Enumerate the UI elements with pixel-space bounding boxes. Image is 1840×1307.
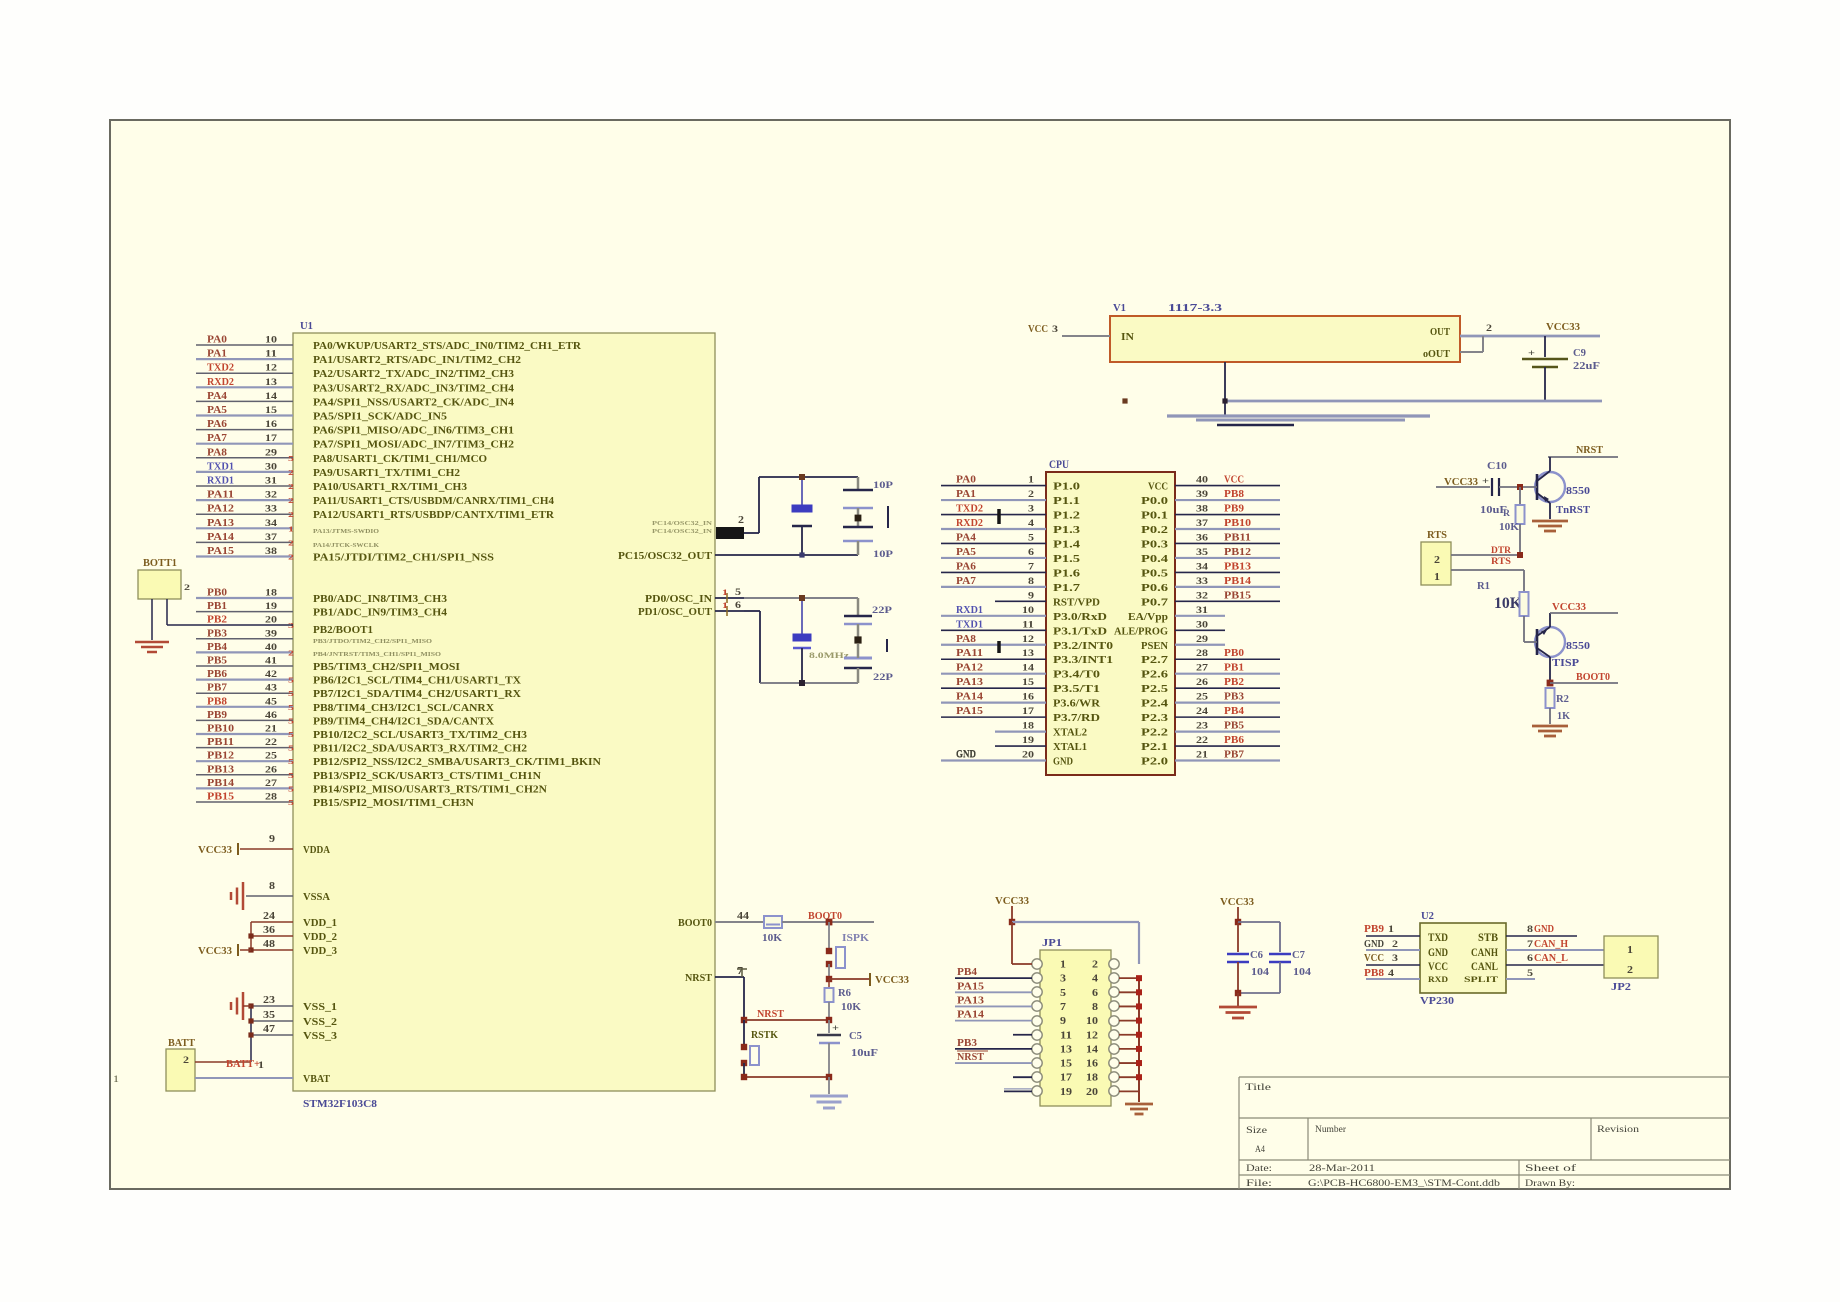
U1 pin 26 wire / net PB13: [196, 764, 542, 782]
svg-text:RXD: RXD: [1428, 974, 1448, 984]
svg-text:DTR: DTR: [1491, 546, 1511, 556]
U1 pin 13 wire / net RXD2: [196, 377, 514, 395]
svg-text:PB6: PB6: [1224, 735, 1244, 746]
svg-text:18: 18: [1086, 1073, 1098, 1084]
svg-text:Revision: Revision: [1597, 1125, 1639, 1135]
wire RTS pin1: [1451, 570, 1524, 592]
svg-text:+: +: [832, 1023, 839, 1033]
svg-text:BOOT0: BOOT0: [1576, 672, 1610, 683]
svg-text:11: 11: [1060, 1030, 1072, 1041]
svg-text:PA6: PA6: [207, 419, 227, 430]
svg-text:VCC33: VCC33: [1220, 897, 1254, 908]
svg-text:10P: 10P: [873, 481, 893, 491]
svg-text:PA4: PA4: [956, 532, 976, 543]
svg-text:34: 34: [1196, 562, 1208, 572]
U1 pin 3 PC15/OSC32_OUT: [618, 551, 744, 562]
CPU pin 11 (P3.1/TxD): [941, 619, 1107, 637]
svg-text:VDD_1: VDD_1: [303, 918, 337, 929]
CPU pin 29 (PSEN): [1141, 635, 1225, 652]
svg-text:4: 4: [1092, 974, 1098, 985]
svg-text:VP230: VP230: [1420, 995, 1455, 1007]
svg-text:104: 104: [1293, 967, 1311, 978]
svg-text:PB3: PB3: [957, 1038, 977, 1049]
svg-text:33: 33: [265, 505, 277, 515]
svg-text:PA5/SPI1_SCK/ADC_IN5: PA5/SPI1_SCK/ADC_IN5: [313, 412, 447, 423]
JP1 left wire row 3: [955, 981, 1032, 992]
svg-text:5: 5: [288, 454, 294, 463]
svg-text:2: 2: [288, 538, 294, 547]
svg-text:XTAL2: XTAL2: [1053, 728, 1087, 739]
net VCC33 (JP1 feed): [995, 896, 1139, 964]
svg-text:2: 2: [1392, 940, 1398, 950]
U1 pin 5 PD0/OSC_IN: [645, 587, 744, 605]
U1 pin 42 wire / net PB6: [196, 669, 522, 687]
U1 pin 40 wire / net PB4: [196, 642, 294, 658]
svg-text:22: 22: [1196, 736, 1208, 746]
svg-text:3: 3: [1060, 974, 1066, 985]
CPU pin 31 (EA/Vpp): [1128, 606, 1225, 623]
svg-text:VCC: VCC: [1148, 482, 1168, 493]
capacitor C10 10uF: [1436, 461, 1520, 516]
svg-text:4: 4: [1388, 969, 1394, 979]
JP1 pins 7/8: [1032, 1001, 1119, 1013]
wire VBAT pin 1: [195, 1074, 330, 1085]
CPU pin 38 (P0.1): [1141, 504, 1280, 522]
svg-text:45: 45: [265, 697, 277, 707]
svg-text:NRST: NRST: [757, 1009, 784, 1020]
CPU pin 39 (P0.0): [1141, 489, 1280, 507]
svg-text:18: 18: [1022, 722, 1034, 732]
svg-text:25: 25: [265, 752, 277, 762]
CPU pin 18 (XTAL2): [995, 722, 1087, 739]
svg-text:PA1/USART2_RTS/ADC_IN1/TIM2_CH: PA1/USART2_RTS/ADC_IN1/TIM2_CH2: [313, 355, 521, 366]
svg-text:GND: GND: [1428, 945, 1448, 959]
svg-text:P1.7: P1.7: [1053, 583, 1080, 594]
CPU pin 40 (VCC): [1148, 475, 1280, 493]
svg-text:VSS_1: VSS_1: [303, 1002, 337, 1013]
svg-text:VDDA: VDDA: [303, 845, 331, 856]
svg-text:30: 30: [265, 462, 277, 472]
svg-text:Drawn By:: Drawn By:: [1525, 1179, 1575, 1189]
svg-text:PA11/USART1_CTS/USBDM/CANRX/TI: PA11/USART1_CTS/USBDM/CANRX/TIM1_CH4: [313, 496, 554, 507]
capacitor C9 22uF: [1522, 336, 1600, 401]
svg-text:+: +: [1482, 476, 1489, 486]
svg-text:VCC33: VCC33: [198, 946, 232, 957]
CPU pin 36 (P0.3): [1141, 532, 1280, 550]
svg-text:P1.0: P1.0: [1053, 482, 1080, 493]
svg-text:P2.4: P2.4: [1141, 699, 1168, 710]
svg-text:CAN_L: CAN_L: [1534, 953, 1568, 964]
CPU pin 24 (P2.3): [1141, 706, 1280, 724]
svg-text:P3.4/T0: P3.4/T0: [1053, 670, 1100, 681]
svg-text:PB15/SPI2_MOSI/TIM1_CH3N: PB15/SPI2_MOSI/TIM1_CH3N: [313, 798, 475, 809]
svg-text:30: 30: [1196, 620, 1208, 630]
svg-text:TXD2: TXD2: [956, 504, 983, 515]
svg-text:15: 15: [1060, 1059, 1072, 1070]
svg-text:19: 19: [265, 602, 277, 612]
svg-text:TISP: TISP: [1552, 657, 1579, 669]
svg-text:CANL: CANL: [1471, 959, 1498, 973]
svg-text:14: 14: [1086, 1044, 1098, 1055]
svg-text:P2.7: P2.7: [1141, 655, 1168, 666]
svg-text:44: 44: [737, 911, 749, 922]
svg-text:PB6/I2C1_SCL/TIM4_CH1/USART1_T: PB6/I2C1_SCL/TIM4_CH1/USART1_TX: [313, 676, 522, 687]
JP1 left wire row 8: [955, 1051, 1032, 1063]
svg-text:Title: Title: [1245, 1083, 1271, 1093]
CPU pin 4 (P1.3): [941, 518, 1080, 536]
svg-text:CAN_H: CAN_H: [1534, 939, 1568, 950]
svg-text:PB5: PB5: [207, 656, 227, 667]
ground (Q1 emitter): [1532, 520, 1568, 523]
svg-text:PB1: PB1: [1224, 663, 1244, 674]
CPU pin 32 (P0.7): [1141, 590, 1280, 608]
svg-text:CPU: CPU: [1049, 459, 1070, 471]
svg-text:6: 6: [735, 600, 742, 610]
wire BATT+ net: [195, 1059, 265, 1070]
svg-text:38: 38: [1196, 505, 1208, 515]
svg-text:5: 5: [288, 744, 294, 753]
crystal Y1 8MHz circuit: [744, 595, 893, 686]
svg-text:5: 5: [288, 730, 294, 739]
svg-text:P2.3: P2.3: [1141, 713, 1168, 724]
svg-text:PA12/USART1_RTS/USBDP/CANTX/TI: PA12/USART1_RTS/USBDP/CANTX/TIM1_ETR: [313, 510, 555, 521]
svg-text:GND: GND: [1364, 939, 1384, 950]
U1 pin 43 wire / net PB7: [196, 683, 522, 701]
svg-text:File:: File:: [1246, 1179, 1272, 1189]
svg-text:P3.7/RD: P3.7/RD: [1053, 713, 1100, 724]
svg-text:P0.0: P0.0: [1141, 496, 1168, 507]
svg-text:22P: 22P: [872, 606, 892, 616]
svg-text:11: 11: [265, 350, 277, 360]
svg-text:NRST: NRST: [1576, 444, 1604, 456]
svg-text:5: 5: [1028, 533, 1034, 543]
svg-text:VSS_2: VSS_2: [303, 1017, 337, 1028]
svg-text:5: 5: [735, 587, 742, 597]
svg-text:22: 22: [265, 738, 277, 748]
svg-text:PB15: PB15: [207, 792, 234, 803]
svg-text:P1.5: P1.5: [1053, 554, 1080, 565]
svg-text:16: 16: [265, 420, 277, 430]
svg-text:PA9/USART1_TX/TIM1_CH2: PA9/USART1_TX/TIM1_CH2: [313, 468, 460, 479]
CPU pin 26 (P2.5): [1141, 677, 1280, 695]
schematic sheet: [110, 120, 1730, 1189]
svg-text:PD0/OSC_IN: PD0/OSC_IN: [645, 594, 713, 605]
U2 pin 6 CANL / net CAN_L: [1506, 953, 1604, 965]
title block: [1239, 1077, 1730, 1189]
svg-text:37: 37: [265, 533, 277, 543]
svg-text:GND: GND: [1053, 757, 1073, 768]
svg-text:PB6: PB6: [207, 669, 227, 680]
svg-text:P2.2: P2.2: [1141, 728, 1168, 739]
svg-text:SPLIT: SPLIT: [1464, 974, 1498, 984]
resistor R5 10K (BOOT0): [762, 916, 782, 944]
svg-text:PA10/USART1_RX/TIM1_CH3: PA10/USART1_RX/TIM1_CH3: [313, 482, 467, 493]
svg-text:PA12: PA12: [956, 663, 983, 674]
svg-text:U2: U2: [1421, 911, 1434, 922]
svg-text:PA0/WKUP/USART2_STS/ADC_IN0/TI: PA0/WKUP/USART2_STS/ADC_IN0/TIM2_CH1_ETR: [313, 341, 582, 352]
svg-text:PB2: PB2: [1224, 677, 1244, 688]
U1 pin 44 BOOT0: [678, 911, 764, 929]
wire to VCC33 (BOOT0 divider): [826, 973, 909, 986]
svg-text:PA14: PA14: [207, 532, 234, 543]
svg-text:PA11: PA11: [207, 490, 234, 501]
svg-text:JP2: JP2: [1611, 982, 1631, 993]
U1 pin 18 wire / net PB0: [196, 588, 447, 606]
CPU pin 17 (P3.7/RD): [941, 706, 1100, 724]
svg-text:Number: Number: [1315, 1125, 1347, 1135]
svg-text:P0.2: P0.2: [1141, 525, 1168, 536]
U1 pin 10 wire / net PA0: [196, 335, 582, 353]
JP1 left wire row 6: [1013, 1034, 1032, 1036]
svg-text:15: 15: [1022, 678, 1034, 688]
svg-text:P1.6: P1.6: [1053, 568, 1080, 579]
svg-text:2: 2: [183, 1055, 190, 1065]
U1 pin 30 wire / net TXD1: [196, 461, 460, 479]
CPU pin 23 (P2.2): [1141, 721, 1280, 739]
svg-text:PB14: PB14: [1224, 576, 1251, 587]
svg-text:PB15: PB15: [1224, 590, 1251, 601]
U1 pin 20 wire / net PB2: [207, 615, 373, 637]
CPU pin 3 (P1.2): [941, 504, 1080, 522]
svg-text:29: 29: [1196, 635, 1208, 645]
svg-text:P3.5/T1: P3.5/T1: [1053, 684, 1100, 695]
capacitor C6 104: [1227, 922, 1269, 993]
svg-text:PA0: PA0: [207, 335, 227, 346]
svg-text:RTS: RTS: [1491, 557, 1511, 567]
CPU pin 34 (P0.5): [1141, 561, 1280, 579]
U1 pin 6 PD1/OSC_OUT: [638, 600, 744, 618]
CPU pin 37 (P0.2): [1141, 518, 1280, 536]
svg-text:28-Mar-2011: 28-Mar-2011: [1309, 1164, 1375, 1174]
U1 pin 22 wire / net PB11: [196, 737, 527, 755]
JP1 pins 1/2: [1032, 959, 1119, 971]
wire NRST net: [741, 977, 832, 1023]
svg-text:19: 19: [1022, 736, 1034, 746]
svg-text:PB3/JTDO/TIM2_CH2/SPI1_MISO: PB3/JTDO/TIM2_CH2/SPI1_MISO: [313, 638, 432, 645]
svg-text:PB10: PB10: [207, 724, 234, 735]
CPU pin 8 (P1.7): [941, 576, 1080, 594]
svg-text:PA5: PA5: [207, 405, 227, 416]
svg-text:35: 35: [1196, 548, 1208, 558]
svg-text:22P: 22P: [873, 673, 893, 683]
CPU pin 15 (P3.5/T1): [941, 677, 1100, 695]
svg-text:2: 2: [1028, 490, 1034, 500]
svg-text:43: 43: [265, 684, 277, 694]
svg-text:PA7/SPI1_MOSI/ADC_IN7/TIM3_CH2: PA7/SPI1_MOSI/ADC_IN7/TIM3_CH2: [313, 440, 514, 451]
JP1 left wire row 7: [955, 1038, 1032, 1049]
svg-text:16: 16: [1022, 693, 1034, 703]
svg-text:1117-3.3: 1117-3.3: [1168, 303, 1222, 314]
svg-text:21: 21: [265, 725, 277, 735]
svg-text:P0.7: P0.7: [1141, 597, 1168, 608]
svg-text:3: 3: [1392, 954, 1398, 964]
svg-text:PB12/SPI2_NSS/I2C2_SMBA/USART3: PB12/SPI2_NSS/I2C2_SMBA/USART3_CK/TIM1_B…: [313, 757, 602, 768]
svg-text:5: 5: [1060, 988, 1066, 999]
JP1 pins 9/10: [1032, 1016, 1119, 1027]
svg-text:Date:: Date:: [1246, 1164, 1272, 1174]
svg-text:PA13/JTMS-SWDIO: PA13/JTMS-SWDIO: [313, 528, 379, 535]
svg-text:PA14: PA14: [957, 1010, 985, 1021]
svg-text:PA15/JTDI/TIM2_CH1/SPI1_NSS: PA15/JTDI/TIM2_CH1/SPI1_NSS: [313, 553, 495, 564]
ground (R2): [1532, 725, 1568, 728]
resistor R6 10K: [825, 979, 862, 1020]
U1 pin 38 wire / net PA15: [196, 546, 495, 564]
svg-text:TnRST: TnRST: [1556, 504, 1591, 516]
connector JP2: [1604, 936, 1658, 993]
svg-text:2: 2: [288, 496, 294, 505]
svg-text:16: 16: [1086, 1059, 1098, 1070]
svg-text:48: 48: [263, 939, 275, 950]
svg-text:4: 4: [1028, 519, 1034, 529]
IC U1 body: [293, 320, 715, 1110]
svg-text:PB9/TIM4_CH4/I2C1_SDA/CANTX: PB9/TIM4_CH4/I2C1_SDA/CANTX: [313, 716, 495, 727]
svg-text:5: 5: [288, 798, 294, 807]
CPU pin 6 (P1.5): [941, 547, 1080, 565]
U1 pin 45 wire / net PB8: [196, 696, 495, 714]
svg-text:EA/Vpp: EA/Vpp: [1128, 612, 1168, 623]
wire oOUT jog: [1460, 336, 1483, 352]
svg-text:PB11: PB11: [207, 737, 234, 748]
svg-text:5: 5: [288, 716, 294, 725]
svg-text:12: 12: [265, 364, 277, 374]
svg-text:PB4: PB4: [1224, 706, 1244, 717]
svg-text:VCC33: VCC33: [1552, 602, 1586, 613]
svg-text:P1.3: P1.3: [1053, 525, 1080, 536]
svg-text:R: R: [1503, 508, 1511, 518]
svg-text:35: 35: [263, 1010, 275, 1021]
svg-text:17: 17: [1060, 1073, 1072, 1084]
svg-text:PC15/OSC32_OUT: PC15/OSC32_OUT: [618, 551, 712, 562]
CPU pin 5 (P1.4): [941, 532, 1080, 550]
net VCC33 (C6/C7): [1220, 897, 1254, 925]
ground (C5): [810, 1077, 848, 1108]
CPU pin 22 (P2.1): [1141, 735, 1280, 753]
svg-text:23: 23: [263, 995, 275, 1006]
svg-text:RXD1: RXD1: [956, 605, 983, 616]
svg-text:PA8: PA8: [207, 447, 227, 458]
svg-text:TXD2: TXD2: [207, 363, 234, 374]
CPU pin 16 (P3.6/WR): [941, 692, 1101, 710]
CPU pin12/13 tie mark: [997, 641, 1001, 653]
svg-text:GND: GND: [956, 749, 976, 760]
U1 PB3/PB4 small alt-function names: [313, 638, 441, 658]
svg-text:3: 3: [1028, 505, 1034, 515]
U1 pin 34 wire / net PA13: [196, 518, 294, 534]
svg-text:PA4: PA4: [207, 391, 227, 402]
CPU pin 33 (P0.6): [1141, 576, 1280, 594]
svg-text:NRST: NRST: [685, 973, 712, 984]
svg-text:TXD1: TXD1: [956, 619, 983, 630]
svg-text:PB5/TIM3_CH2/SPI1_MOSI: PB5/TIM3_CH2/SPI1_MOSI: [313, 662, 460, 673]
svg-text:1K: 1K: [1557, 711, 1570, 722]
svg-text:VCC33: VCC33: [198, 845, 232, 856]
JP1 left wire row 5: [955, 1010, 1032, 1021]
svg-text:PA14: PA14: [956, 692, 983, 703]
JP1 left wire row 4: [955, 995, 1032, 1006]
svg-text:PB0: PB0: [207, 588, 227, 599]
JP1 pins 17/18: [1032, 1072, 1119, 1084]
svg-text:104: 104: [1251, 967, 1269, 978]
svg-text:R2: R2: [1556, 694, 1569, 705]
svg-text:IN: IN: [1121, 332, 1135, 343]
svg-text:9: 9: [1028, 591, 1034, 601]
CPU pin 30 (ALE/PROG): [1114, 620, 1225, 637]
U1 pin 14 wire / net PA4: [196, 391, 514, 409]
svg-text:8: 8: [269, 881, 275, 892]
svg-text:PA0: PA0: [956, 475, 976, 486]
svg-text:P2.5: P2.5: [1141, 684, 1168, 695]
U1 pin 12 wire / net TXD2: [196, 363, 514, 381]
svg-text:32: 32: [265, 491, 277, 501]
svg-text:PA14/JTCK-SWCLK: PA14/JTCK-SWCLK: [313, 542, 379, 549]
svg-text:8550: 8550: [1566, 485, 1591, 497]
svg-text:P3.1/TxD: P3.1/TxD: [1053, 626, 1107, 637]
svg-text:38: 38: [265, 547, 277, 557]
svg-text:VBAT: VBAT: [303, 1074, 330, 1085]
svg-text:7: 7: [1527, 940, 1533, 950]
svg-text:11: 11: [1022, 620, 1034, 630]
svg-text:1: 1: [1434, 572, 1440, 583]
svg-text:VCC: VCC: [1428, 959, 1448, 973]
svg-text:PA4/SPI1_NSS/USART2_CK/ADC_IN4: PA4/SPI1_NSS/USART2_CK/ADC_IN4: [313, 397, 514, 408]
U1 pin 37 wire / net PA14: [196, 532, 294, 548]
svg-text:VSSA: VSSA: [303, 892, 331, 903]
JP1 left wire row 2: [955, 967, 1032, 978]
svg-text:9: 9: [1060, 1016, 1066, 1027]
JP1 left wire row 1: [1012, 963, 1032, 965]
svg-text:1: 1: [1028, 476, 1034, 486]
U1 pin 25 wire / net PB12: [196, 751, 602, 769]
U2 pin 8 STB / net GND: [1506, 924, 1577, 936]
U1 pin 27 wire / net PB14: [196, 778, 548, 796]
svg-text:10P: 10P: [873, 550, 893, 560]
svg-text:BATT+: BATT+: [226, 1059, 260, 1070]
svg-text:VDD_3: VDD_3: [303, 946, 337, 957]
svg-text:STB: STB: [1478, 930, 1498, 944]
svg-text:G:\PCB-HC6800-EM3_\STM-Cont.dd: G:\PCB-HC6800-EM3_\STM-Cont.ddb: [1308, 1179, 1500, 1189]
svg-text:CANH: CANH: [1471, 945, 1498, 959]
wire NRST bottom rail: [741, 1074, 832, 1080]
IC CPU body: [1046, 459, 1175, 775]
svg-text:RTS: RTS: [1427, 530, 1447, 541]
resistor RSTK: [741, 1020, 779, 1077]
svg-text:22uF: 22uF: [1573, 361, 1600, 372]
svg-text:P2.1: P2.1: [1141, 742, 1168, 753]
svg-text:2: 2: [288, 510, 294, 519]
svg-text:10K: 10K: [1494, 595, 1523, 612]
svg-text:5: 5: [288, 676, 294, 685]
wire VCC33 (Q2 emitter): [1550, 602, 1618, 613]
JP1 pins 13/14: [1032, 1044, 1119, 1056]
U1 pins 23/35/47 VSS_1..3 with ground: [231, 992, 337, 1062]
CPU pin 10 (P3.0/RxD): [941, 605, 1107, 623]
svg-text:13: 13: [265, 378, 277, 388]
CPU pin 12 (P3.2/INT0): [941, 634, 1113, 652]
svg-text:27: 27: [1196, 664, 1208, 674]
svg-text:PA8/USART1_CK/TIM1_CH1/MCO: PA8/USART1_CK/TIM1_CH1/MCO: [313, 454, 487, 465]
svg-text:VCC33: VCC33: [875, 975, 909, 986]
CPU pin 2 (P1.1): [941, 489, 1080, 507]
svg-text:2: 2: [1627, 965, 1633, 976]
svg-text:RXD1: RXD1: [207, 476, 234, 487]
svg-text:2: 2: [288, 468, 294, 477]
svg-text:oOUT: oOUT: [1423, 349, 1450, 360]
svg-text:BOOT0: BOOT0: [678, 918, 712, 929]
svg-text:TXD: TXD: [1428, 930, 1448, 944]
svg-text:12: 12: [1086, 1030, 1098, 1041]
resistor ISPK pull: [826, 922, 870, 978]
svg-text:PB9: PB9: [207, 710, 227, 721]
